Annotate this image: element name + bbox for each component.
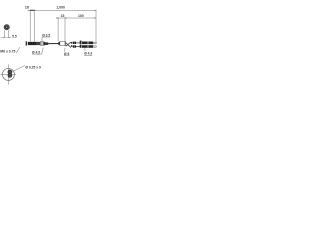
crosshair vertical xyxy=(7,64,9,84)
plug top: tip xyxy=(93,42,96,43)
sleeve xyxy=(44,42,46,45)
svg-text:100: 100 xyxy=(78,14,84,18)
svg-text:1,000: 1,000 xyxy=(56,5,65,9)
dimension line 15/100 xyxy=(56,17,96,19)
svg-text:Ø 4.5: Ø 4.5 xyxy=(32,50,40,54)
extension line x58.1 xyxy=(57,17,59,41)
plug bottom: neck xyxy=(76,45,80,48)
threaded barrel M6 xyxy=(28,42,37,45)
plug top: neck xyxy=(76,42,80,45)
nut xyxy=(40,42,43,46)
extension line x30.2 xyxy=(29,10,31,42)
svg-text:18: 18 xyxy=(25,6,29,10)
extension line x96 xyxy=(95,10,97,44)
fiber end view circle xyxy=(2,68,14,80)
plug top: body xyxy=(82,42,93,45)
extension line x65 xyxy=(64,17,66,41)
extension line x34.4 xyxy=(33,10,35,42)
leader 0.25 xyxy=(13,65,25,71)
crimp block xyxy=(58,42,60,45)
dimension line 18 xyxy=(28,9,35,11)
plug bottom: block A xyxy=(73,45,76,47)
boot xyxy=(45,42,48,45)
crosshair horizontal xyxy=(0,73,16,75)
svg-text:Ø 0.25 x 9: Ø 0.25 x 9 xyxy=(25,65,41,69)
plug top: block A xyxy=(73,42,76,44)
branch stub bottom xyxy=(71,45,72,47)
cable xyxy=(48,43,58,45)
svg-text:15: 15 xyxy=(61,14,65,18)
plug bottom: tip xyxy=(93,46,96,47)
fiber split crossing xyxy=(66,43,71,48)
branch stub top xyxy=(71,42,72,44)
extension line 5.5 right xyxy=(7,30,9,38)
svg-text:M6 x 0.75: M6 x 0.75 xyxy=(0,50,15,54)
sensor head flange xyxy=(26,41,27,45)
dimension line 5.5 xyxy=(1,36,11,38)
fiber bundle xyxy=(8,70,12,77)
extension line 5.5 left xyxy=(4,30,6,38)
dimension line 1000 xyxy=(34,9,96,11)
plug bottom: body xyxy=(82,45,93,48)
svg-text:5.5: 5.5 xyxy=(12,35,17,39)
connector housing rect xyxy=(60,41,65,46)
front view circle (M6 thread end view) xyxy=(4,25,9,30)
